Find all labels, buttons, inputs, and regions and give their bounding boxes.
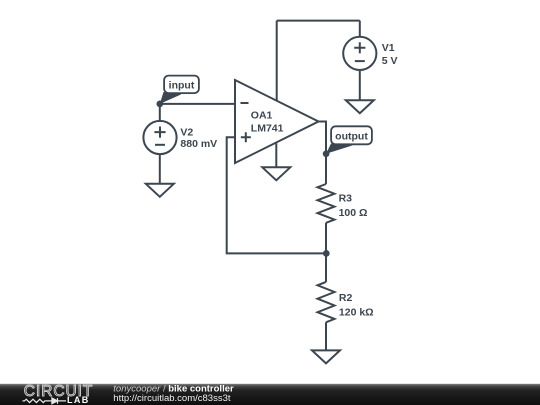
wire R3 bottom to junction node	[325, 223, 327, 254]
svg-text:V1: V1	[382, 42, 395, 54]
op-amp non-inverting input plus sign	[241, 132, 251, 142]
svg-text:OA1: OA1	[251, 110, 273, 122]
svg-text:LAB: LAB	[67, 395, 90, 405]
CircuitLab logo resistor-diode glyph	[23, 398, 67, 404]
svg-text:V2: V2	[180, 126, 193, 138]
op-amp inverting input minus sign	[241, 102, 249, 104]
svg-text:R2: R2	[339, 292, 353, 304]
wire V2 bottom lead to ground	[159, 154, 161, 184]
V1 plus sign	[354, 42, 365, 53]
footer bar	[0, 384, 540, 405]
svg-text:120 kΩ: 120 kΩ	[339, 306, 374, 318]
voltage source V2 circle	[143, 121, 176, 154]
wire junction node to R2 top	[325, 253, 327, 282]
wire V1 top lead	[359, 21, 361, 37]
svg-text:R3: R3	[339, 193, 353, 205]
wire V1 bottom lead to ground	[359, 70, 361, 100]
V2 plus sign	[154, 127, 165, 138]
node input junction dot	[156, 101, 163, 108]
svg-text:http://circuitlab.com/c83ss3t: http://circuitlab.com/c83ss3t	[113, 393, 231, 404]
wire feedback junction to op-amp non-inverting input	[227, 137, 327, 253]
ground under V1	[346, 100, 374, 113]
wire input node to V2 top	[159, 104, 161, 121]
svg-text:880 mV: 880 mV	[180, 138, 217, 150]
svg-text:5 V: 5 V	[382, 55, 398, 67]
wire op-amp positive supply pin	[276, 21, 278, 101]
svg-text:output: output	[335, 130, 368, 142]
wire input node to op-amp inverting input	[160, 103, 235, 105]
ground under op-amp	[262, 167, 290, 180]
node output junction dot	[323, 150, 330, 157]
node feedback junction dot	[323, 250, 330, 257]
resistor R2 zigzag	[318, 282, 335, 322]
V1 minus sign	[355, 60, 365, 62]
ground under R2	[312, 350, 340, 363]
svg-text:100 Ω: 100 Ω	[339, 207, 368, 219]
wire R2 bottom to ground	[325, 322, 327, 350]
wire op-amp output to R3	[319, 122, 327, 185]
svg-text:LM741: LM741	[251, 122, 284, 134]
node label output flag	[326, 126, 372, 154]
resistor R3 zigzag	[318, 184, 335, 223]
node label input flag	[160, 76, 199, 104]
ground under V2	[146, 184, 174, 197]
voltage source V1 circle	[343, 37, 376, 70]
op-amp U1 OA1 triangle	[235, 80, 319, 163]
V2 minus sign	[155, 144, 165, 146]
svg-text:input: input	[169, 79, 195, 91]
wire top rail V1 to op-amp V+	[277, 20, 360, 22]
wire op-amp negative supply pin to ground	[275, 143, 277, 167]
